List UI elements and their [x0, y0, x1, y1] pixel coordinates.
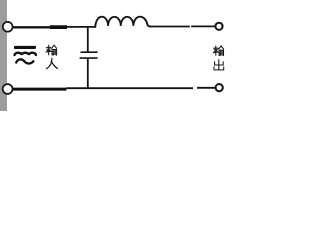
input terminal top	[3, 22, 13, 32]
glyph 出 (bottom)	[214, 60, 224, 70]
input terminal bottom	[3, 84, 13, 94]
label 输入 (input)	[46, 45, 57, 68]
pulsating DC input symbol	[14, 46, 36, 64]
glyph 入 (bottom)	[47, 58, 58, 68]
capacitor C	[80, 27, 98, 89]
wire top-right (inductor to output top)	[151, 25, 216, 27]
label 输出 (output)	[213, 46, 223, 70]
output terminal bottom	[216, 84, 223, 91]
wire top-left (input top to inductor)	[12, 26, 96, 29]
output terminal top	[215, 23, 222, 30]
glyph 输 (top)	[213, 46, 223, 56]
glyph 输 (top)	[46, 45, 57, 55]
wire bottom (input bottom to output bottom)	[12, 88, 216, 89]
inductor L	[95, 17, 150, 27]
